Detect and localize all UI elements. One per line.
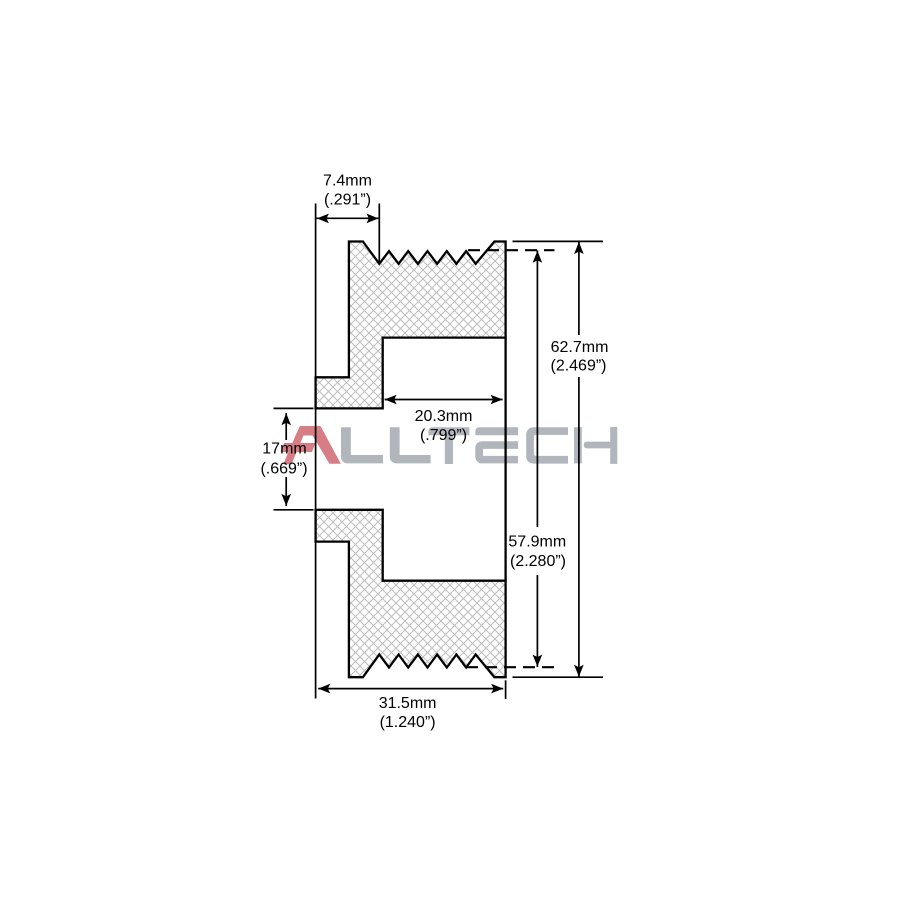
svg-text:17mm: 17mm: [262, 440, 306, 457]
dashed line top (groove peak diameter): [468, 249, 555, 251]
svg-text:31.5mm: 31.5mm: [379, 695, 437, 712]
svg-text:(1.240”): (1.240”): [380, 714, 436, 731]
svg-text:62.7mm: 62.7mm: [551, 339, 609, 356]
svg-text:(.669”): (.669”): [260, 461, 307, 478]
svg-text:(.799”): (.799”): [420, 427, 467, 444]
watermark letter E: [475, 427, 518, 463]
svg-text:7.4mm: 7.4mm: [323, 173, 372, 190]
dimension line 62.7mm (vertical): [578, 242, 580, 335]
pulley right face edge (middle): [504, 338, 506, 581]
dimension line 20.3mm: [385, 399, 503, 401]
extension line left (x=315.6): [315, 204, 317, 699]
svg-text:(.291”): (.291”): [324, 192, 371, 209]
watermark letter A (red): [281, 426, 341, 464]
dimension line 57.9mm (vertical): [536, 250, 538, 527]
svg-text:20.3mm: 20.3mm: [415, 408, 473, 425]
bottom extension line (outer diameter): [513, 676, 604, 678]
17mm tick bottom: [274, 509, 314, 511]
svg-text:(2.280”): (2.280”): [510, 553, 566, 570]
17mm tick top: [274, 407, 314, 409]
top extension line (outer diameter): [513, 240, 604, 242]
watermark letter L2: [390, 427, 431, 463]
extension line right bottom (x=505.6): [505, 680, 507, 699]
watermark letter T: [428, 427, 469, 464]
watermark letter H: [574, 427, 617, 464]
svg-text:(2.469”): (2.469”): [550, 358, 606, 375]
pulley lower flange cross-section (hatched): [316, 510, 506, 677]
watermark letter L1: [341, 427, 383, 463]
pulley upper flange cross-section (hatched): [316, 242, 506, 409]
dimension line 31.5mm: [318, 688, 503, 690]
extension line right of 7.4mm (to first groove valley): [378, 204, 380, 264]
svg-text:57.9mm: 57.9mm: [508, 533, 566, 550]
dashed line bottom (groove peak diameter): [466, 666, 555, 668]
watermark logo ALLTECH: [281, 426, 618, 464]
dimension line 17mm (vertical): [285, 413, 287, 440]
dimension line 7.4mm: [317, 217, 379, 219]
watermark letter C: [526, 427, 568, 463]
